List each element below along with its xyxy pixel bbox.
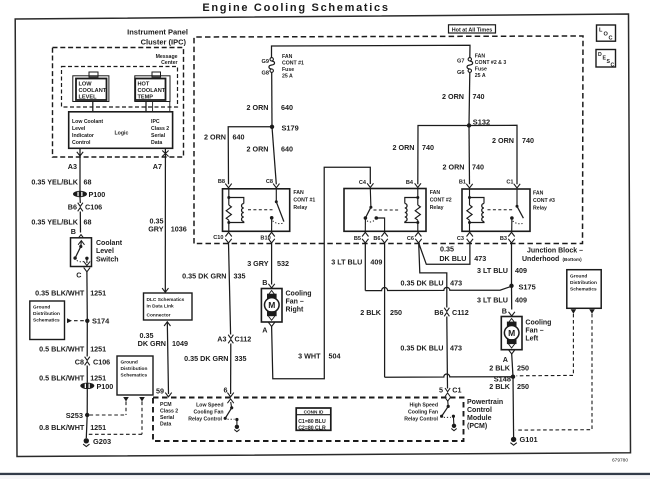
svg-text:2 ORN: 2 ORN [492, 136, 514, 145]
svg-text:473: 473 [450, 279, 462, 288]
pin C of coolant level switch [76, 268, 90, 280]
svg-text:Level: Level [72, 126, 86, 132]
svg-text:FAN: FAN [293, 190, 304, 196]
LOW COOLANT LEVEL indicator [73, 72, 109, 102]
svg-text:Relay Control: Relay Control [188, 417, 222, 423]
svg-text:640: 640 [281, 103, 293, 112]
svg-text:C: C [611, 63, 615, 69]
wire HOT indicator to logic [146, 102, 170, 112]
svg-text:740: 740 [472, 162, 484, 171]
drawing number 679780 [612, 458, 628, 464]
svg-text:C8: C8 [266, 179, 273, 185]
wire K2 C6 down to C112 (0.35 DK BLU 473) [400, 243, 462, 308]
svg-text:S175: S175 [519, 282, 536, 291]
svg-text:Schematics: Schematics [33, 318, 60, 324]
svg-text:Level: Level [96, 248, 114, 255]
low speed cooling fan relay control driver [188, 399, 239, 432]
svg-text:640: 640 [233, 132, 245, 141]
svg-text:Relay: Relay [430, 205, 444, 211]
svg-text:Fuse: Fuse [475, 67, 487, 73]
pin C3 of K3 [457, 232, 473, 243]
svg-text:Class 2: Class 2 [151, 126, 169, 132]
pin 59 of PCM [156, 387, 172, 397]
DESC reference box [596, 50, 616, 69]
svg-text:Junction Block –: Junction Block – [527, 248, 583, 255]
svg-text:B6: B6 [434, 308, 443, 317]
svg-text:Ground: Ground [121, 360, 138, 366]
svg-text:0.8 BLK/WHT: 0.8 BLK/WHT [39, 423, 85, 432]
svg-text:FAN: FAN [282, 54, 293, 60]
conn id table [296, 408, 331, 431]
splice S253 [66, 411, 126, 420]
cooling fan left motor M2 [501, 317, 551, 350]
pin A7 of IPC [153, 148, 169, 171]
pin A of cooling fan left motor [503, 350, 515, 364]
svg-text:250: 250 [390, 308, 402, 317]
svg-text:Center: Center [161, 60, 177, 66]
svg-text:(Bottom): (Bottom) [563, 257, 583, 262]
pin B of coolant level switch [71, 227, 84, 239]
svg-text:Relay Control: Relay Control [404, 417, 438, 423]
svg-text:Cooling: Cooling [525, 320, 551, 327]
wire K2 C6 to K3 C3 tie (0.35 DK BLU 473) [419, 243, 487, 264]
svg-text:C106: C106 [85, 203, 102, 212]
svg-text:Coolant: Coolant [96, 240, 123, 247]
svg-text:Data: Data [160, 422, 171, 428]
svg-text:C6: C6 [407, 236, 414, 242]
svg-text:A: A [503, 355, 508, 364]
svg-text:C1: C1 [452, 385, 461, 394]
svg-text:2 ORN: 2 ORN [247, 144, 269, 153]
svg-text:COOLANT: COOLANT [79, 88, 107, 94]
svg-text:0.35 DK GRN: 0.35 DK GRN [184, 354, 228, 363]
wire S179 to relay K1 pin B8 (2 ORN 640) [204, 127, 272, 185]
grommet P100 [73, 190, 105, 199]
svg-text:PCM: PCM [160, 402, 172, 408]
svg-text:335: 335 [235, 354, 247, 363]
svg-text:B: B [71, 227, 76, 236]
svg-text:2 BLK: 2 BLK [360, 308, 382, 317]
svg-text:Serial: Serial [160, 415, 175, 421]
svg-text:740: 740 [422, 143, 434, 152]
ground G203 [83, 437, 111, 447]
svg-text:Distribution: Distribution [570, 280, 597, 286]
svg-text:C2=80 CLR: C2=80 CLR [298, 425, 326, 431]
Message Center label [156, 54, 178, 66]
relay K3 coil (resistor + inductor) [467, 189, 484, 231]
relay K2 name label [430, 190, 452, 211]
IPC dashed outline [53, 48, 184, 158]
svg-text:Right: Right [286, 306, 305, 313]
pin B8 of K1 [218, 179, 232, 188]
svg-text:G6: G6 [457, 70, 464, 76]
svg-text:CONT #1: CONT #1 [293, 198, 315, 204]
svg-text:B: B [502, 306, 507, 315]
svg-text:2 BLK: 2 BLK [489, 364, 511, 373]
wire K1 C10 to C112 (0.35 DK GRN 335) [182, 243, 245, 335]
svg-text:B5: B5 [354, 236, 361, 242]
svg-text:B8: B8 [218, 179, 225, 185]
svg-text:Cooling: Cooling [286, 290, 312, 297]
svg-text:0.5 BLK/WHT: 0.5 BLK/WHT [39, 345, 85, 354]
wire K2 B6 to S148 (2 BLK 250) [360, 243, 513, 377]
wire S179 to relay K1 pin C8 (2 ORN 640) [247, 127, 293, 185]
svg-text:in Data Link: in Data Link [147, 304, 175, 310]
svg-text:0.35 YEL/BLK: 0.35 YEL/BLK [31, 178, 78, 187]
wire C112 to PCM pin 5 C1 (0.35 DK BLU 473) [400, 317, 462, 389]
svg-text:B6: B6 [68, 203, 77, 212]
connector C106 pin B6 [68, 197, 102, 212]
svg-text:640: 640 [281, 144, 293, 153]
svg-text:Underhood: Underhood [522, 256, 559, 263]
svg-text:C: C [76, 270, 81, 279]
svg-text:409: 409 [370, 257, 382, 266]
svg-text:CONT #1: CONT #1 [282, 61, 304, 67]
wire S148 to G101 (2 BLK 250) [489, 377, 529, 437]
splice S174 [85, 317, 110, 326]
svg-text:L: L [599, 28, 603, 34]
svg-text:Instrument Panel: Instrument Panel [127, 28, 188, 37]
svg-text:1036: 1036 [171, 224, 187, 233]
wire C to S174 (0.35 BLK/WHT 1251) [35, 272, 106, 321]
ground G101 [510, 435, 537, 445]
wire K3 B3 to S175 (3 LT BLU 409) [477, 243, 527, 286]
wire A7 to DLC (0.35 GRY 1036) [148, 157, 187, 292]
svg-text:C1=80 BLU: C1=80 BLU [298, 419, 326, 425]
wire S253 to G203 (0.8 BLK/WHT 1251) [39, 415, 106, 438]
DLC schematics reference box [144, 293, 193, 320]
svg-text:A3: A3 [68, 162, 77, 171]
svg-text:G9: G9 [262, 59, 269, 65]
svg-text:532: 532 [277, 259, 289, 268]
pin C6 of K2 [407, 232, 422, 243]
pin C4 of K2 [359, 180, 374, 188]
svg-text:P100: P100 [89, 190, 106, 199]
PCM class 2 serial data label [160, 402, 178, 428]
svg-text:3 WHT: 3 WHT [298, 351, 321, 360]
grommet P100 lower [80, 382, 113, 391]
svg-text:25 A: 25 A [475, 73, 486, 79]
svg-text:C106: C106 [93, 358, 110, 367]
svg-text:(PCM): (PCM) [467, 423, 487, 430]
svg-text:1049: 1049 [172, 339, 188, 348]
svg-text:Distribution: Distribution [33, 311, 60, 317]
svg-text:A: A [262, 326, 267, 335]
battery feed bus wire [272, 45, 471, 57]
IPC logic module U1 [69, 112, 173, 149]
svg-text:0.35 BLK/WHT: 0.35 BLK/WHT [35, 288, 85, 297]
relay K1 coil (resistor + inductor) [226, 189, 244, 232]
svg-text:2 ORN: 2 ORN [204, 132, 226, 141]
coolant level switch S1 [71, 238, 123, 267]
svg-text:CONT #3: CONT #3 [533, 198, 555, 204]
wire S174 to C106 (0.5 BLK/WHT 1251) [39, 321, 106, 357]
powertrain control module PCM dashed outline [153, 398, 464, 442]
relay K2 switch [364, 189, 400, 232]
splice S175 [509, 282, 535, 291]
svg-text:Relay: Relay [533, 206, 547, 212]
svg-text:68: 68 [84, 218, 92, 227]
svg-text:Engine Cooling Schematics: Engine Cooling Schematics [202, 2, 389, 14]
svg-text:2 BLK: 2 BLK [489, 382, 511, 391]
splice S132 [467, 117, 490, 127]
wire F2 to S132 (2 ORN 740) [442, 72, 484, 125]
svg-text:C4: C4 [359, 180, 367, 186]
svg-text:Switch: Switch [96, 256, 119, 263]
connector C112 pin A3 [217, 334, 251, 343]
svg-text:CONT #2: CONT #2 [430, 198, 452, 204]
HOT COOLANT TEMP indicator [135, 72, 170, 102]
svg-text:B4: B4 [406, 180, 414, 186]
svg-text:Logic: Logic [115, 131, 129, 137]
wire K1 B10 to cooling fan right (3 GRY 532) [247, 243, 289, 285]
svg-text:DK GRN: DK GRN [138, 339, 166, 348]
svg-text:504: 504 [329, 351, 341, 360]
LOC reference box [597, 25, 616, 42]
svg-text:P100: P100 [97, 382, 114, 391]
wire F1 to S179 (2 ORN 640) [247, 72, 293, 126]
pin A3 of IPC [68, 148, 83, 171]
svg-text:335: 335 [234, 272, 246, 281]
svg-text:3 GRY: 3 GRY [247, 259, 269, 268]
ground distribution schematics reference box 3 [516, 270, 602, 430]
svg-text:0.35 DK GRN: 0.35 DK GRN [182, 272, 226, 281]
pin B10 of K1 [260, 232, 274, 243]
splice S148 [494, 375, 515, 384]
wire S132 to relay K3 pin C1 (2 ORN 740) [469, 125, 534, 184]
bottom window edge band [0, 473, 650, 479]
relay K1 FAN CONT #1 [223, 189, 290, 232]
svg-text:250: 250 [517, 364, 529, 373]
svg-text:6: 6 [224, 386, 228, 395]
svg-text:TEMP: TEMP [138, 94, 154, 100]
svg-text:Ground: Ground [570, 274, 587, 280]
svg-text:G7: G7 [457, 58, 464, 64]
splice S179 [270, 124, 299, 133]
wire P100 to S253 [86, 389, 88, 415]
svg-text:Indicator: Indicator [72, 133, 94, 139]
svg-text:C: C [609, 36, 613, 42]
svg-text:S174: S174 [92, 317, 110, 326]
wire S175 to fan left B (3 LT BLU 409) [477, 286, 527, 310]
svg-text:High Speed: High Speed [409, 403, 438, 409]
svg-text:0.35 DK BLU: 0.35 DK BLU [400, 343, 443, 352]
svg-text:COOLANT: COOLANT [138, 88, 166, 94]
svg-text:Module: Module [467, 415, 492, 422]
wire A3 to P100 (0.35 YEL/BLK 68) [31, 157, 91, 191]
svg-text:5: 5 [439, 385, 443, 394]
connector C112 pin B6 [434, 308, 469, 317]
svg-text:0.35 YEL/BLK: 0.35 YEL/BLK [31, 218, 78, 227]
svg-text:740: 740 [473, 92, 485, 101]
wire S132 to relay K2 pin B4 (2 ORN 740) [393, 126, 469, 185]
pin B of cooling fan left motor [502, 306, 515, 316]
wire fan right A to K2 C4 (3 WHT 504) [272, 167, 371, 378]
pin C1 of K3 [506, 180, 520, 189]
svg-text:DLC Schematics: DLC Schematics [147, 297, 185, 303]
svg-text:Ground: Ground [33, 305, 50, 311]
svg-text:LEVEL: LEVEL [79, 94, 98, 100]
svg-text:B6: B6 [373, 236, 380, 242]
svg-text:C10: C10 [213, 235, 223, 241]
cooling fan right motor M1 [261, 289, 311, 323]
svg-text:740: 740 [522, 136, 534, 145]
svg-text:DK BLU: DK BLU [439, 254, 466, 263]
svg-text:C3: C3 [457, 236, 464, 242]
relay K1 switch [248, 189, 284, 232]
relay K3 name label [533, 191, 555, 212]
junction block underhood dashed outline [194, 36, 583, 244]
svg-text:C8: C8 [75, 358, 84, 367]
svg-text:59: 59 [156, 387, 164, 396]
svg-text:409: 409 [515, 266, 527, 275]
svg-text:2 ORN: 2 ORN [442, 92, 464, 101]
relay K3 FAN CONT #3 [462, 189, 530, 231]
svg-text:Fan –: Fan – [286, 298, 304, 305]
Hot at All Times tag [449, 25, 496, 34]
ground distribution schematics reference box 1 [30, 301, 84, 340]
relay K1 name label [293, 190, 315, 211]
svg-text:Cooling Fan: Cooling Fan [408, 410, 438, 416]
wire K2 B5 to S175 (3 LT BLU 409) [331, 243, 511, 291]
pin C8 of K1 [266, 179, 280, 188]
svg-text:M: M [508, 328, 515, 338]
Message Center dashed outline [62, 67, 178, 108]
svg-text:FAN: FAN [475, 54, 486, 60]
svg-text:Cooling Fan: Cooling Fan [194, 410, 224, 416]
wire C106 to P100 (0.5 BLK/WHT 1251) [39, 366, 106, 383]
svg-text:2 ORN: 2 ORN [247, 103, 269, 112]
svg-text:CONN ID: CONN ID [304, 410, 324, 415]
connector C1 pin 5 of PCM [439, 385, 462, 401]
svg-text:Schematics: Schematics [570, 287, 597, 293]
svg-text:1251: 1251 [90, 423, 106, 432]
Junction Block Underhood label [522, 248, 583, 263]
Powertrain Control Module (PCM) label [467, 399, 503, 430]
pin B4 of K2 [406, 180, 421, 188]
svg-text:Data: Data [151, 140, 162, 146]
wire C106 to coolant level switch (0.35 YEL/BLK 68) [31, 212, 91, 233]
svg-text:3 LT BLU: 3 LT BLU [331, 257, 362, 266]
pin A of cooling fan right motor [262, 322, 275, 334]
svg-text:473: 473 [450, 343, 462, 352]
svg-text:Class 2: Class 2 [160, 409, 178, 415]
svg-text:Fuse: Fuse [282, 67, 294, 73]
pin C10 of K1 [213, 232, 232, 243]
svg-text:FAN: FAN [533, 191, 544, 197]
svg-text:IPC: IPC [151, 119, 160, 125]
svg-text:S253: S253 [66, 411, 83, 420]
wire C112 to PCM pin 6 (0.35 DK GRN 335) [184, 344, 246, 395]
svg-text:Powertrain: Powertrain [467, 399, 503, 406]
svg-text:Low Coolant: Low Coolant [72, 119, 103, 125]
svg-text:2 ORN: 2 ORN [393, 143, 415, 152]
relay K2 coil (resistor + inductor) [405, 189, 421, 232]
svg-text:1251: 1251 [90, 345, 106, 354]
svg-text:G101: G101 [520, 435, 538, 444]
svg-text:0.5 BLK/WHT: 0.5 BLK/WHT [39, 373, 85, 382]
svg-text:Low Speed: Low Speed [196, 403, 223, 409]
svg-text:0.35 DK BLU: 0.35 DK BLU [400, 279, 443, 288]
wire DLC to PCM pin 59 (0.35 DK GRN 1049) [138, 322, 188, 394]
wire S132 to relay K3 pin B1 (2 ORN 740) [443, 126, 484, 185]
svg-text:M: M [268, 300, 275, 310]
fuse F2 FAN CONT #2 and 3 25A [457, 54, 506, 80]
svg-text:HOT: HOT [138, 81, 150, 87]
connector C106 pin C8 [75, 357, 110, 367]
svg-text:G203: G203 [93, 437, 111, 446]
pin B6 of K2 [373, 232, 387, 243]
ground distribution schematics reference box 2 [89, 356, 154, 434]
svg-text:A7: A7 [153, 162, 162, 171]
svg-text:Control: Control [72, 140, 91, 146]
svg-text:Relay: Relay [293, 205, 307, 211]
svg-text:68: 68 [84, 178, 92, 187]
high speed cooling fan relay control driver [404, 401, 456, 431]
svg-text:S179: S179 [282, 124, 299, 133]
svg-text:Serial: Serial [151, 133, 166, 139]
pin B5 of K2 [354, 232, 369, 243]
pin B3 of K3 [500, 232, 515, 243]
svg-text:G8: G8 [262, 70, 269, 76]
svg-text:B: B [262, 278, 267, 287]
svg-text:Left: Left [525, 336, 539, 343]
pin B of cooling fan right motor [262, 278, 275, 288]
svg-text:Fan –: Fan – [525, 328, 543, 335]
svg-text:250: 250 [517, 382, 529, 391]
fuse F1 FAN CONT #1 25A [262, 54, 304, 80]
svg-text:Distribution: Distribution [121, 366, 148, 372]
svg-text:Schematics: Schematics [121, 373, 148, 379]
svg-text:3 LT BLU: 3 LT BLU [477, 266, 508, 275]
svg-text:0.35: 0.35 [440, 244, 454, 253]
svg-text:Connector: Connector [147, 313, 171, 319]
svg-text:B3: B3 [500, 236, 507, 242]
svg-text:C112: C112 [452, 308, 469, 317]
svg-text:Cluster (IPC): Cluster (IPC) [141, 38, 187, 47]
svg-text:679780: 679780 [612, 458, 628, 464]
Instrument Panel Cluster (IPC) label [127, 28, 188, 47]
svg-text:409: 409 [515, 296, 527, 305]
svg-text:2 ORN: 2 ORN [443, 162, 465, 171]
svg-text:C112: C112 [235, 334, 252, 343]
wire LOW indicator to logic [92, 102, 94, 112]
svg-text:Hot at All Times: Hot at All Times [452, 27, 492, 33]
svg-text:1251: 1251 [90, 288, 106, 297]
svg-text:Control: Control [467, 407, 492, 414]
svg-text:CONT #2 & 3: CONT #2 & 3 [475, 60, 507, 66]
title: Engine Cooling Schematics [202, 2, 389, 14]
svg-text:GRY: GRY [148, 224, 164, 233]
svg-text:C1: C1 [506, 180, 513, 186]
pin B1 of K3 [459, 180, 473, 189]
svg-text:A3: A3 [217, 334, 226, 343]
svg-text:FAN: FAN [430, 190, 441, 196]
svg-text:473: 473 [474, 254, 486, 263]
svg-text:3 LT BLU: 3 LT BLU [477, 296, 508, 305]
svg-text:LOW: LOW [79, 81, 93, 87]
pin 6 of PCM [224, 386, 234, 397]
wire fan left A to S148 (2 BLK 250) [489, 354, 529, 377]
svg-text:25 A: 25 A [282, 74, 293, 80]
relay K3 switch [488, 189, 524, 231]
relay K2 FAN CONT #2 [344, 189, 426, 232]
svg-text:D: D [598, 52, 602, 58]
svg-text:B1: B1 [459, 180, 466, 186]
